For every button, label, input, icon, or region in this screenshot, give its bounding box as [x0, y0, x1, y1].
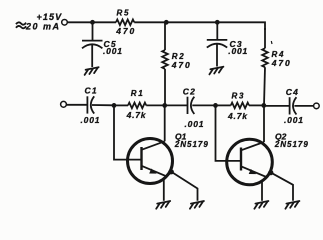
- svg-text:.001: .001: [81, 115, 101, 125]
- node E junction (Q1 collector): [162, 103, 167, 108]
- svg-text:C4: C4: [286, 87, 299, 97]
- wire Q2 case lead: [261, 180, 263, 201]
- svg-text:R1: R1: [131, 89, 145, 98]
- resistor R5: [93, 20, 167, 26]
- wire Q1 case lead: [163, 178, 165, 201]
- node C junction: [215, 20, 220, 25]
- svg-text:20 mA: 20 mA: [25, 21, 61, 31]
- svg-text:4.7k: 4.7k: [126, 110, 147, 120]
- wire top rail node B to node C: [166, 21, 217, 23]
- wire Q1 emitter to ground: [171, 172, 197, 201]
- resistor R1: [114, 103, 165, 109]
- node F junction (Q2 base feed): [213, 103, 218, 108]
- svg-text:C2: C2: [183, 86, 196, 96]
- node Q2 emitter dot: [268, 170, 273, 175]
- capacitor C1: [87, 96, 114, 113]
- svg-text:.001: .001: [185, 119, 205, 129]
- wire top rail terminal to node A: [67, 21, 92, 23]
- ground (Q1 case): [156, 201, 170, 209]
- capacitor C3: [207, 22, 228, 66]
- node Q1 emitter dot: [169, 169, 174, 174]
- svg-text:4.7k: 4.7k: [227, 111, 248, 121]
- transistor Q1: [128, 105, 173, 183]
- capacitor C5: [82, 22, 103, 67]
- svg-text:R3: R3: [232, 91, 246, 100]
- wire Q2 base feed: [216, 105, 242, 160]
- wire Q1 base feed: [114, 105, 142, 159]
- resistor R3: [216, 103, 264, 109]
- capacitor C4: [264, 97, 314, 114]
- svg-text:.001: .001: [284, 115, 304, 125]
- terminal +15V input: [62, 20, 68, 26]
- wire top rail node C to R4 corner: [217, 22, 265, 30]
- svg-text:470: 470: [171, 60, 192, 70]
- svg-text:470: 470: [115, 26, 136, 36]
- svg-text:+15V: +15V: [37, 12, 63, 22]
- svg-text:470: 470: [271, 58, 292, 68]
- svg-text:2N5179: 2N5179: [274, 140, 309, 149]
- terminal output: [314, 103, 320, 109]
- ground (Q1 emitter): [190, 201, 204, 209]
- svg-text:C1: C1: [85, 86, 98, 96]
- svg-text:2N5179: 2N5179: [174, 140, 209, 149]
- ground (Q2 case): [254, 201, 268, 209]
- svg-text:.001: .001: [228, 46, 248, 56]
- ground (Q2 emitter): [285, 201, 299, 209]
- node G junction (Q2 collector): [261, 103, 266, 108]
- node A junction: [90, 20, 95, 25]
- ground (C3): [209, 67, 223, 75]
- resistor R4: [262, 28, 268, 106]
- wire Q2 emitter to ground: [271, 173, 293, 201]
- label R4 value 470: [270, 41, 273, 44]
- node B junction: [164, 20, 169, 25]
- svg-text:.001: .001: [103, 46, 123, 56]
- resistor R2: [162, 22, 168, 105]
- terminal input: [61, 101, 67, 107]
- transistor Q2: [227, 105, 273, 184]
- ground (C5): [85, 67, 99, 75]
- capacitor C2: [165, 97, 216, 114]
- label approx 20 mA: [16, 22, 26, 24]
- wire input to C1: [66, 104, 87, 106]
- node D junction: [112, 103, 117, 108]
- svg-text:R5: R5: [117, 9, 131, 18]
